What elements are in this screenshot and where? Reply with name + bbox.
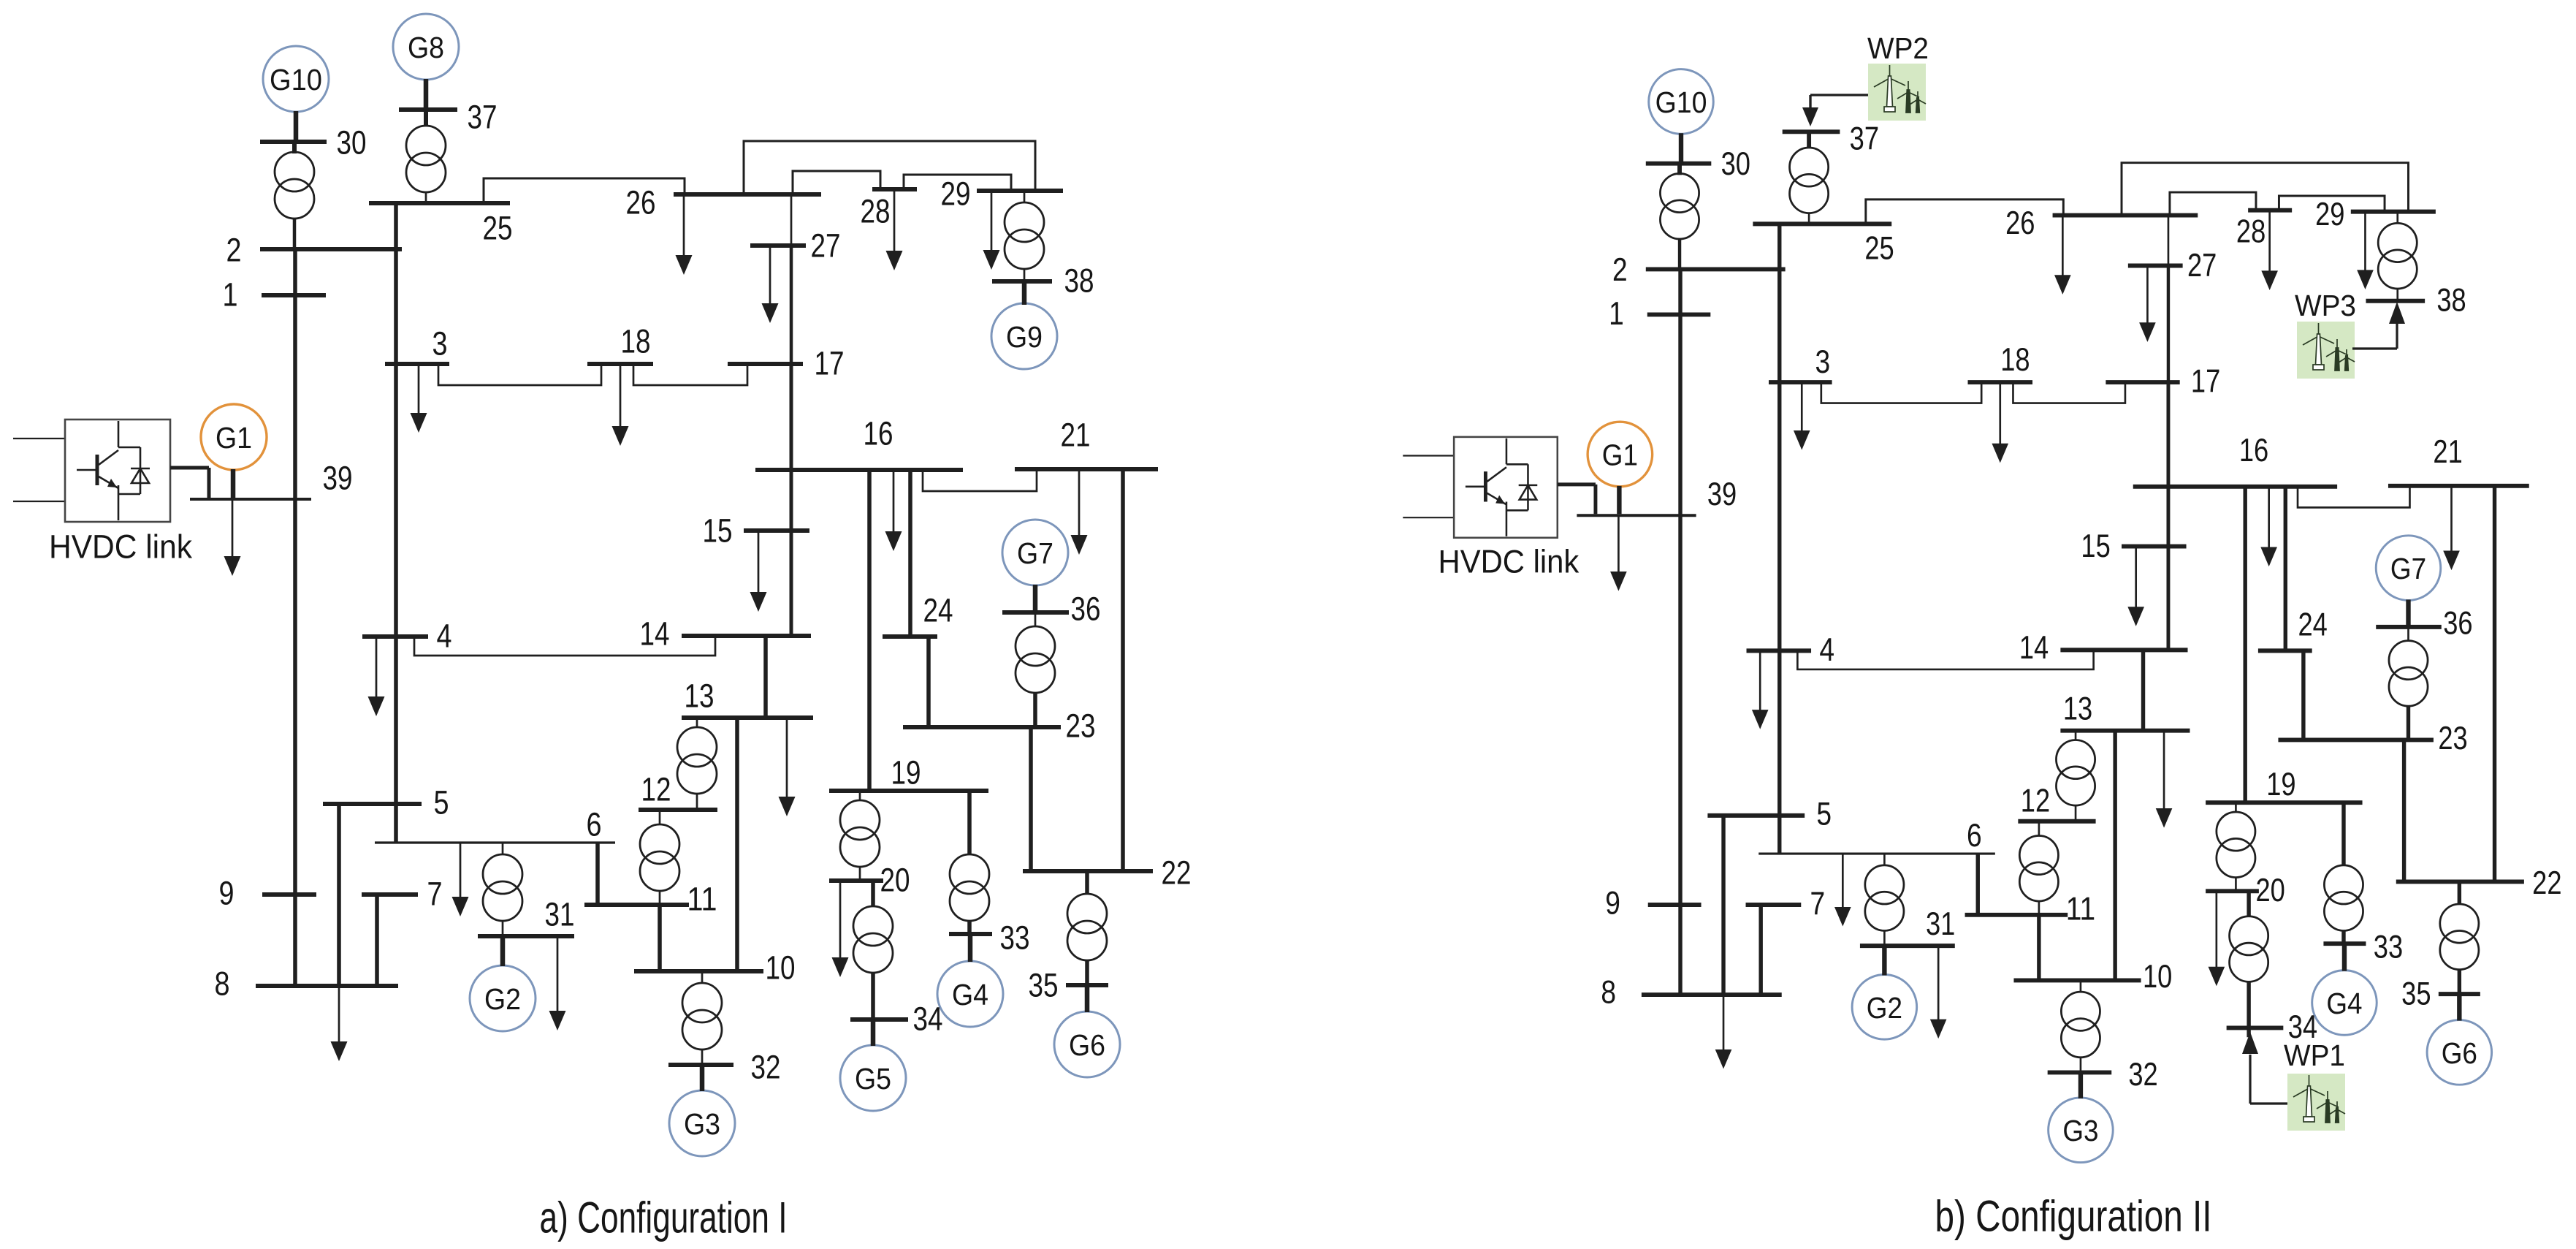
bus 17 (config II): [2106, 380, 2179, 384]
wire bus16-bus19 (config II): [2243, 487, 2247, 802]
HVDC link converter box (config II): [1454, 437, 1558, 538]
load arrow at bus 13 (config II): [2163, 731, 2165, 810]
transformer bus20-bus34: [871, 881, 875, 907]
svg-text:G8: G8: [408, 31, 444, 64]
svg-text:33: 33: [1000, 919, 1030, 957]
G5 stem: [871, 1020, 876, 1046]
svg-text:26: 26: [2005, 205, 2035, 241]
load arrow at bus 31: [557, 936, 559, 1013]
load arrow at bus 13: [786, 718, 788, 799]
wire bus5-bus8 (config II): [1721, 816, 1726, 995]
wind park WP2 box: [1868, 64, 1926, 121]
generator G5: [840, 1045, 906, 1111]
generator G4: [937, 961, 1003, 1027]
svg-text:12: 12: [2021, 783, 2050, 819]
bus 25 (config II): [1753, 221, 1891, 226]
bus 10: [634, 969, 763, 973]
load arrow at bus 4 (config II): [1759, 650, 1761, 712]
load arrow at bus 26 (config II): [2062, 216, 2064, 278]
transformer bus6-bus31: [502, 843, 504, 855]
load arrow at bus 15: [758, 531, 760, 594]
bus 7: [362, 892, 418, 897]
wire bus23-bus22: [1029, 727, 1033, 871]
transformer bus19-bus33 (config II): [2341, 802, 2346, 866]
wire bus23-bus22 (config II): [2402, 740, 2407, 881]
wire bus16-bus21 (config II): [2298, 486, 2409, 508]
bus 34: [850, 1017, 908, 1022]
svg-text:18: 18: [2000, 342, 2030, 378]
bus 18: [587, 362, 653, 366]
transformer bus19-bus20: [859, 791, 861, 801]
G2 stem: [500, 936, 506, 966]
bus 25: [369, 201, 510, 205]
wind park WP1 box: [2287, 1074, 2345, 1131]
svg-text:HVDC link: HVDC link: [49, 528, 192, 566]
svg-text:27: 27: [811, 227, 841, 265]
load arrow at bus 39 (config II): [1617, 515, 1620, 574]
bus 37: [399, 107, 457, 112]
wire bus13-bus10: [735, 718, 739, 971]
svg-text:G3: G3: [2062, 1114, 2098, 1147]
transformer bus37-bus25: [424, 110, 428, 126]
bus 22: [1023, 869, 1153, 873]
svg-text:11: 11: [2066, 891, 2095, 927]
bus 18 (config II): [1967, 380, 2032, 384]
bus 20 (config II): [2206, 889, 2259, 893]
svg-text:34: 34: [913, 1001, 943, 1038]
svg-text:G2: G2: [484, 982, 521, 1016]
wire bus26-bus27 (config II): [2168, 216, 2170, 266]
svg-text:36: 36: [1071, 591, 1101, 628]
bus 19 (config II): [2206, 800, 2362, 805]
bus 33: [949, 932, 992, 936]
load arrow at bus 3 (config II): [1801, 382, 1803, 433]
svg-text:17: 17: [2191, 364, 2220, 400]
G10 stem (config II): [1679, 133, 1684, 163]
svg-text:38: 38: [2436, 282, 2466, 318]
load arrow at bus 27: [769, 246, 771, 305]
diode inside HVDC box: [131, 468, 150, 470]
svg-text:20: 20: [880, 862, 910, 899]
svg-text:G4: G4: [2326, 987, 2362, 1020]
bus 5: [323, 802, 422, 806]
svg-text:37: 37: [468, 99, 498, 136]
svg-text:G10: G10: [270, 63, 322, 96]
svg-text:1: 1: [223, 276, 238, 314]
svg-text:32: 32: [751, 1049, 781, 1086]
generator G1: [201, 404, 267, 470]
HVDC link converter box: [65, 420, 170, 522]
HVDC output wire to bus 39: [170, 466, 209, 470]
wire bus16-bus24: [908, 470, 912, 637]
svg-text:G4: G4: [952, 978, 988, 1011]
load arrow at bus 31 (config II): [1937, 946, 1940, 1021]
wire bus14-bus13: [763, 636, 768, 718]
load arrow at bus 29 (config II): [2364, 212, 2366, 273]
transformer bus29-bus38 (config II): [2396, 212, 2398, 224]
bus 29: [977, 189, 1063, 193]
load arrow at bus 20 (config II): [2216, 891, 2218, 968]
svg-text:35: 35: [2401, 976, 2431, 1012]
svg-text:30: 30: [337, 124, 367, 162]
svg-text:28: 28: [2236, 214, 2266, 250]
svg-text:7: 7: [427, 876, 443, 913]
HVDC link input wire (bottom) (config II): [1403, 517, 1454, 518]
generator G10: [263, 46, 329, 112]
wire bus7-bus8: [375, 895, 379, 986]
bus 31 (config II): [1860, 944, 1955, 948]
bus 14: [682, 634, 811, 638]
svg-text:29: 29: [941, 175, 971, 213]
wire bus17-bus16-bus15-bus14: [790, 364, 793, 636]
load arrow at bus 6: [460, 843, 462, 899]
svg-text:2: 2: [226, 232, 242, 269]
generator G9: [991, 303, 1057, 369]
wire bus16-bus21: [923, 469, 1037, 491]
arrow WP1 into bus 34: [2242, 1032, 2258, 1054]
bus 8 (config II): [1642, 992, 1782, 997]
bus 17: [728, 362, 803, 366]
generator G6: [1054, 1011, 1120, 1077]
svg-text:37: 37: [1850, 121, 1879, 157]
wire bus24-bus23 (config II): [2301, 650, 2306, 740]
bus 36: [1002, 610, 1069, 615]
transformer bus12-bus11: [659, 810, 661, 825]
svg-text:23: 23: [1066, 707, 1096, 745]
svg-text:7: 7: [1810, 886, 1826, 922]
bus 26: [674, 192, 821, 197]
load arrow at bus 18 (config II): [1999, 382, 2001, 446]
load arrow at bus 8 (config II): [1723, 995, 1725, 1052]
svg-text:22: 22: [2532, 865, 2561, 901]
transformer bus10-bus32 (config II): [2080, 980, 2082, 992]
bus 22 (config II): [2396, 879, 2524, 884]
wire bus5-bus8: [337, 804, 341, 986]
load arrow at bus 27 (config II): [2146, 265, 2149, 324]
wire bus27-bus17: [790, 246, 793, 364]
bus 11 (config II): [1965, 913, 2068, 917]
svg-text:11: 11: [687, 881, 717, 918]
wire bus26-bus29 (top rail) (config II): [2122, 163, 2408, 216]
svg-text:10: 10: [2143, 959, 2172, 995]
bus 7 (config II): [1746, 903, 1802, 907]
transformer bus29-bus38: [1024, 191, 1026, 203]
wire bus2-bus1-bus9-bus8: [293, 249, 297, 986]
G2 stem (config II): [1882, 946, 1887, 975]
transformer bus30-bus2: [292, 142, 297, 153]
bus 9 (config II): [1648, 903, 1702, 907]
wind park WP3 box: [2297, 322, 2355, 379]
svg-text:23: 23: [2438, 721, 2467, 756]
bus 6: [375, 841, 615, 843]
svg-text:WP2: WP2: [1867, 31, 1929, 65]
wire bus27-bus17 (config II): [2167, 265, 2171, 382]
svg-text:35: 35: [1029, 967, 1059, 1004]
svg-text:33: 33: [2374, 930, 2403, 965]
wire bus2-bus1-bus9-bus8 (config II): [1678, 269, 1683, 995]
bus 23 (config II): [2278, 737, 2433, 742]
bus 35 (config II): [2439, 992, 2480, 996]
svg-text:WP3: WP3: [2295, 289, 2356, 322]
transformer bus13-bus12: [696, 718, 698, 728]
bus 24 (config II): [2258, 648, 2312, 653]
G6 stem (config II): [2457, 994, 2462, 1020]
bus 38: [992, 279, 1052, 284]
bus 23: [903, 725, 1061, 729]
wire bus6-bus11: [595, 843, 600, 905]
bus 24: [883, 634, 937, 639]
G9 stem: [1022, 281, 1027, 305]
svg-text:9: 9: [1605, 886, 1620, 922]
G3 stem: [700, 1065, 705, 1091]
bus 3 (config II): [1769, 380, 1832, 384]
svg-text:b) Configuration II: b) Configuration II: [1935, 1192, 2212, 1241]
bus 20: [829, 878, 883, 883]
svg-text:1: 1: [1609, 296, 1624, 332]
svg-text:16: 16: [2239, 433, 2268, 468]
svg-text:22: 22: [1162, 854, 1192, 892]
svg-text:18: 18: [621, 323, 651, 360]
wire bus6-bus11 (config II): [1976, 854, 1981, 915]
svg-text:21: 21: [2433, 434, 2462, 470]
bus 3: [385, 362, 449, 366]
svg-text:a) Configuration I: a) Configuration I: [540, 1193, 788, 1242]
wire bus13-bus10 (config II): [2113, 731, 2117, 981]
bus 27: [750, 243, 806, 248]
svg-text:31: 31: [545, 896, 575, 933]
load arrow at bus 29: [991, 191, 993, 252]
bus 32 (config II): [2048, 1070, 2112, 1074]
diode inside HVDC box (config II): [1519, 485, 1538, 487]
svg-text:5: 5: [434, 784, 449, 821]
transformer bus19-bus20 (config II): [2235, 802, 2237, 813]
wire bus7-bus8 (config II): [1758, 905, 1763, 995]
wire bus3-bus18 (config II): [1821, 382, 1981, 403]
bus 2: [260, 247, 402, 251]
bus 39 (config II): [1577, 514, 1696, 517]
bus 8: [256, 984, 398, 988]
svg-text:G7: G7: [1017, 536, 1053, 570]
load arrow at bus 3: [418, 364, 420, 415]
wire bus25-bus26: [484, 178, 685, 203]
bus 2 (config II): [1646, 267, 1786, 271]
svg-text:16: 16: [864, 415, 893, 452]
svg-text:39: 39: [323, 460, 353, 497]
svg-text:G7: G7: [2390, 552, 2426, 585]
bus 34 (config II): [2227, 1025, 2284, 1030]
svg-text:20: 20: [2255, 873, 2285, 908]
G10 stem: [294, 111, 299, 142]
svg-text:17: 17: [815, 345, 845, 382]
bus 1: [262, 293, 326, 297]
svg-text:3: 3: [1815, 344, 1830, 380]
HVDC link input wire (top) (config II): [1403, 455, 1454, 456]
svg-text:3: 3: [432, 325, 448, 362]
svg-text:4: 4: [1819, 632, 1834, 668]
bus 16 (config II): [2133, 485, 2337, 489]
transformer bus12-bus11 (config II): [2038, 821, 2040, 837]
wire bus4-bus14 (config II): [1797, 650, 2093, 669]
svg-text:27: 27: [2187, 248, 2217, 284]
load arrow at bus 28 (config II): [2268, 210, 2271, 273]
bus 14 (config II): [2060, 648, 2187, 652]
svg-text:G10: G10: [1655, 86, 1707, 119]
svg-text:14: 14: [2019, 630, 2049, 666]
G7 stem: [1033, 585, 1038, 612]
generator G10 (config II): [1649, 69, 1714, 134]
svg-text:G9: G9: [1006, 320, 1043, 354]
svg-text:6: 6: [587, 806, 602, 843]
svg-text:30: 30: [1721, 146, 1750, 182]
transformer bus10-bus32: [701, 971, 704, 984]
svg-text:G3: G3: [684, 1107, 720, 1141]
svg-text:4: 4: [437, 618, 452, 655]
svg-text:WP1: WP1: [2284, 1039, 2345, 1072]
G1 stem (config II): [1617, 486, 1622, 514]
svg-text:HVDC link: HVDC link: [1438, 544, 1580, 580]
generator G8: [393, 14, 459, 80]
bus 4 (config II): [1747, 648, 1812, 653]
wire bus25-bus3-bus4-bus5-bus6: [394, 203, 398, 843]
bus 21: [1015, 467, 1158, 471]
G4 stem: [968, 934, 973, 962]
generator G7: [1002, 520, 1068, 585]
transformer bus30-bus2 (config II): [1677, 164, 1682, 175]
svg-text:21: 21: [1061, 417, 1091, 454]
bus 13: [682, 715, 813, 720]
bus 5 (config II): [1707, 813, 1805, 818]
arrow WP2 into bus 37: [1802, 107, 1818, 126]
bus 27 (config II): [2128, 263, 2183, 267]
load arrow at bus 28: [893, 189, 896, 253]
bus 32: [668, 1063, 733, 1067]
HVDC output wire to bus 39 (config II): [1558, 482, 1596, 486]
bus 36 (config II): [2376, 625, 2442, 629]
bus 1 (config II): [1647, 312, 1711, 316]
svg-text:8: 8: [1601, 975, 1616, 1011]
wire bus28-bus29 (config II): [2279, 196, 2385, 212]
wire bus18-bus17 (config II): [2013, 382, 2125, 403]
transformer bus22-bus35: [1085, 871, 1089, 895]
load arrow at bus 39: [232, 499, 234, 558]
bus 33 (config II): [2323, 941, 2366, 946]
transformer bus36-bus23: [1034, 612, 1037, 627]
svg-text:29: 29: [2315, 197, 2344, 232]
bus 11: [584, 903, 689, 907]
bus 26 (config II): [2053, 213, 2198, 218]
load arrow at bus 20: [839, 881, 842, 960]
wire bus3-bus18: [438, 364, 601, 385]
svg-text:12: 12: [641, 771, 671, 808]
generator G4 (config II): [2312, 971, 2377, 1036]
wire bus16-bus19: [867, 470, 872, 791]
bus 35: [1066, 983, 1108, 987]
svg-text:2: 2: [1612, 252, 1628, 288]
wire bus26-bus28: [793, 171, 880, 194]
wire WP1 to bus 34: [2250, 1102, 2287, 1104]
load arrow at bus 18: [620, 364, 622, 428]
bus 29 (config II): [2351, 210, 2436, 214]
svg-text:28: 28: [861, 193, 891, 230]
svg-text:15: 15: [2081, 528, 2110, 564]
G3 stem (config II): [2078, 1072, 2084, 1098]
wire bus25-bus26 (config II): [1866, 200, 2064, 224]
wire bus18-bus17: [633, 364, 747, 385]
bus 12 (config II): [2018, 819, 2095, 824]
svg-text:13: 13: [685, 677, 715, 715]
generator G3: [669, 1090, 735, 1156]
wire bus21-bus22: [1121, 469, 1125, 871]
svg-text:24: 24: [923, 592, 953, 629]
generator G1 (config II): [1588, 422, 1653, 487]
wire bus21-bus22 (config II): [2493, 486, 2497, 882]
wire bus28-bus29: [904, 175, 1011, 191]
load arrow at bus 4: [376, 637, 378, 699]
bus 9: [262, 892, 316, 897]
wire bus11-bus10: [658, 905, 662, 971]
transformer bus37-bus25 (config II): [1807, 132, 1811, 148]
svg-text:38: 38: [1064, 262, 1094, 300]
bus 37 (config II): [1783, 129, 1840, 134]
svg-text:39: 39: [1707, 477, 1737, 512]
wire bus26-bus27: [790, 194, 793, 246]
svg-text:25: 25: [483, 210, 513, 247]
G7 stem (config II): [2406, 599, 2411, 626]
load arrow at bus 16: [893, 470, 895, 534]
bus 15 (config II): [2122, 544, 2187, 549]
transformer bus20-bus34 (config II): [2247, 891, 2251, 916]
svg-text:13: 13: [2063, 691, 2092, 727]
bus 19: [829, 789, 988, 793]
G1 stem: [231, 469, 236, 498]
generator G2 (config II): [1852, 975, 1917, 1040]
svg-text:15: 15: [703, 512, 733, 550]
svg-text:8: 8: [215, 965, 230, 1003]
generator G7 (config II): [2376, 536, 2441, 601]
bus 30 (config II): [1646, 162, 1712, 166]
wire bus14-bus13 (config II): [2141, 650, 2146, 730]
transformer bus22-bus35 (config II): [2458, 881, 2462, 905]
wire bus17-bus16-bus15-bus14 (config II): [2166, 382, 2170, 650]
bus 6 (config II): [1758, 852, 1995, 854]
svg-text:G6: G6: [1069, 1028, 1105, 1062]
wire bus4-bus14: [414, 636, 715, 656]
IGBT symbol inside HVDC box (config II): [1506, 439, 1508, 464]
bus 12: [639, 808, 717, 812]
bus 30: [260, 140, 327, 144]
svg-text:19: 19: [891, 754, 921, 791]
svg-text:19: 19: [2266, 767, 2295, 802]
wire bus11-bus10 (config II): [2037, 915, 2041, 981]
G6 stem: [1085, 985, 1090, 1012]
svg-text:9: 9: [219, 875, 235, 912]
bus 21 (config II): [2388, 484, 2529, 488]
bus 39: [190, 498, 311, 501]
svg-text:10: 10: [766, 949, 796, 987]
bus 16: [755, 468, 963, 472]
G4 stem (config II): [2342, 944, 2347, 971]
generator G2: [470, 965, 536, 1031]
bus 31: [478, 934, 574, 938]
bus 4: [362, 634, 428, 639]
load arrow at bus 15 (config II): [2135, 547, 2137, 610]
svg-text:G1: G1: [1602, 438, 1638, 471]
wire bus16-bus24 (config II): [2284, 487, 2288, 651]
bus 28: [872, 187, 917, 191]
svg-text:31: 31: [1926, 906, 1955, 942]
transformer bus13-bus12 (config II): [2075, 731, 2077, 741]
generator G6 (config II): [2427, 1020, 2492, 1085]
